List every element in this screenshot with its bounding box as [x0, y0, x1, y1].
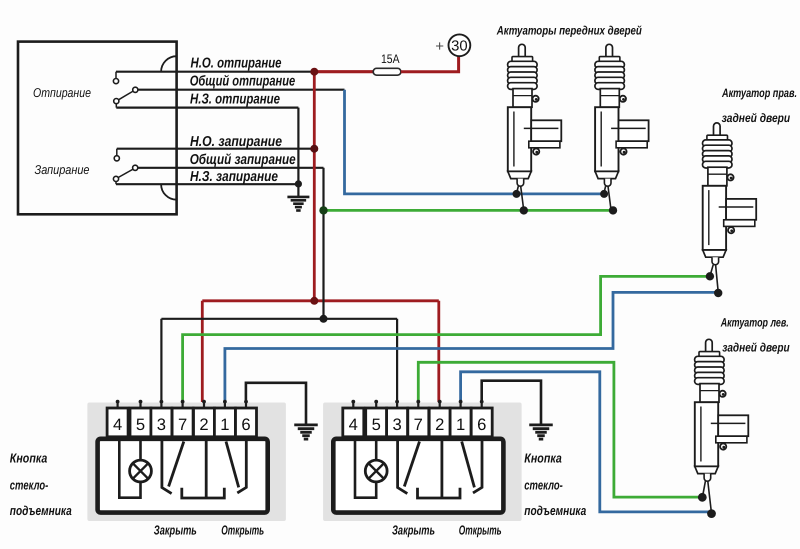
svg-text:Общий запирание: Общий запирание [190, 152, 296, 168]
svg-text:Открыть: Открыть [221, 523, 264, 538]
relay box (central locking control unit) [18, 42, 177, 215]
terminal box pin 4 [343, 408, 364, 437]
wire: +12V feed to fuse (dark red) [314, 70, 373, 73]
svg-text:Н.З. запирание: Н.З. запирание [190, 169, 278, 185]
junction: left-rear actuator blue lead [707, 509, 716, 518]
svg-text:Актуаторы передних дверей: Актуаторы передних дверей [496, 23, 642, 37]
svg-text:2: 2 [199, 415, 208, 434]
junction: left-rear actuator green lead [698, 493, 707, 502]
terminal box pin 2 [429, 408, 450, 437]
terminal box pin 4 [107, 408, 128, 437]
close contact (pins 3/7) in right [398, 440, 408, 494]
actuator front-left door [508, 44, 562, 186]
terminal box pin 3 [151, 408, 172, 437]
ground wire from left switch pin 6 [246, 383, 306, 424]
wire: common unlock to front actuators (blue) [345, 90, 605, 194]
window switch right terminal pins [351, 400, 483, 408]
svg-text:стекло-: стекло- [10, 478, 49, 493]
svg-text:5: 5 [372, 415, 381, 434]
junction: common lock green tap [319, 206, 327, 214]
svg-text:Н.О. запирание: Н.О. запирание [190, 134, 282, 150]
actuator right-rear door [703, 123, 757, 265]
relay arm (lock) [118, 169, 133, 177]
svg-text:Кнопка: Кнопка [10, 450, 48, 465]
junction: right-rear actuator blue lead [714, 289, 722, 297]
wire: Общий запирание (black) [138, 167, 324, 169]
common bar (pin 2) in left [182, 440, 225, 498]
window switch left terminal pins [116, 400, 248, 408]
relay contact circle - common lock [133, 165, 138, 170]
leads: left-rear actuator [703, 481, 706, 496]
junction: N.C. lock / ground wire [295, 180, 302, 187]
svg-text:4: 4 [349, 415, 358, 434]
terminal box pin 6 [236, 408, 257, 437]
wire: Общий отпирание (black) [138, 89, 345, 91]
wire riser N.C. unlock [115, 104, 117, 108]
lamp (illumination) in right [365, 460, 387, 482]
junction: front-left actuator lock lead [520, 206, 528, 214]
wire: left switch pin 1 to right-rear actuator (blue) [225, 292, 716, 402]
svg-text:подъемника: подъемника [524, 503, 586, 518]
leads: right-rear actuator [710, 265, 713, 276]
wire: +12V drop to right switch pin 2 (dark red) [437, 301, 440, 402]
wire: +12V drop to left switch pin 2 (dark red) [201, 301, 204, 402]
wire: N.C. wires to ground (black vertical) [297, 108, 299, 197]
junction: right-rear actuator green lead [706, 272, 714, 280]
junction: front-right actuator lock lead [609, 206, 617, 214]
ground wire from right switch pin 6 [482, 381, 541, 424]
terminal box pin 1 [450, 408, 471, 437]
common bar (pin 2) in right [418, 440, 461, 498]
svg-text:задней двери: задней двери [722, 340, 790, 354]
junction: N.O. lock / +12V [310, 145, 318, 153]
svg-text:6: 6 [477, 415, 486, 434]
junction: +12V branch [310, 297, 318, 305]
ground symbol (relay N.C.) [287, 196, 309, 199]
wire: fuse to +30 terminal (dark red) [401, 56, 459, 71]
wire riser N.O. unlock [115, 72, 117, 79]
relay contact circle - N.C. unlock [114, 99, 119, 104]
terminal box pin 7 [408, 408, 429, 437]
junction: front-right actuator unlock lead [600, 190, 608, 198]
terminal box pin 3 [387, 408, 408, 437]
svg-text:6: 6 [241, 415, 250, 434]
leads: front-left actuator [517, 186, 519, 193]
relay arm (unlock) [119, 91, 134, 100]
svg-text:Запирание: Запирание [35, 162, 90, 177]
svg-text:7: 7 [178, 415, 187, 434]
wire: Н.З. запирание (black) [116, 183, 298, 185]
wire: +12V branch to window switches (dark red horizontal) [202, 299, 438, 302]
box edge arc (bottom wire opening) [161, 184, 177, 200]
close contact (pins 3/7) in left [162, 440, 172, 494]
battery terminal 30 circle [449, 34, 471, 56]
svg-text:7: 7 [414, 415, 423, 434]
svg-text:Закрыть: Закрыть [154, 523, 197, 538]
open contact (pins 1/6) in right [462, 442, 475, 488]
ground symbol (right switch) [529, 423, 553, 426]
fuse F1 15A [373, 68, 401, 75]
svg-text:Кнопка: Кнопка [524, 450, 562, 465]
svg-text:30: 30 [451, 39, 468, 55]
wire: Н.О. отпирание (black) [116, 71, 314, 73]
wire: main +12V vertical (dark red) [313, 72, 316, 301]
svg-text:Отпирание: Отпирание [33, 85, 91, 100]
relay contact circle - common unlock [133, 87, 138, 92]
svg-text:Актуатор прав.: Актуатор прав. [721, 86, 797, 100]
svg-text:1: 1 [220, 415, 229, 434]
svg-text:Актуатор лев.: Актуатор лев. [720, 316, 789, 330]
svg-text:Общий отпирание: Общий отпирание [190, 73, 296, 89]
svg-text:4: 4 [113, 415, 122, 434]
lamp (illumination) in left [130, 460, 152, 482]
svg-text:задней двери: задней двери [722, 111, 791, 125]
terminal box pin 2 [194, 408, 215, 437]
window switch left body [98, 439, 268, 513]
wire: drop to left switch pin 3 (black) [160, 319, 162, 402]
svg-text:Н.З. отпирание: Н.З. отпирание [190, 91, 280, 107]
junction: front-left actuator unlock lead [513, 190, 521, 198]
wire: Н.З. отпирание (black) [116, 106, 298, 108]
svg-text:Закрыть: Закрыть [392, 523, 435, 538]
svg-text:15А: 15А [381, 52, 400, 66]
open contact (pins 1/6) in left [226, 442, 239, 488]
window switch left background [87, 403, 286, 522]
terminal box pin 6 [471, 408, 492, 437]
junction: N.O. unlock / +12V [310, 68, 318, 76]
box edge arc (top wire opening) [161, 56, 177, 71]
wire: right switch pin 1 to left-rear actuator (blue) [461, 372, 709, 512]
terminal box pin 5 [130, 408, 151, 437]
relay contact circle - N.O. lock [114, 156, 119, 161]
svg-text:5: 5 [136, 415, 145, 434]
wire: left switch pin 7 to right-rear actuator (green) [183, 276, 708, 402]
wire: Н.О. запирание (black) [117, 148, 314, 150]
terminal box pin 1 [214, 408, 235, 437]
window switch right body [333, 439, 503, 513]
leads: front-right actuator [604, 186, 606, 193]
lamp wiring in right [355, 440, 376, 498]
wire: common lock to front actuators (green) [324, 209, 614, 212]
svg-text:Н.О. отпирание: Н.О. отпирание [191, 55, 282, 71]
terminal box pin 5 [366, 408, 387, 437]
actuator front-right door [595, 44, 649, 186]
wire: right switch pin 7 to left-rear actuator (green) [418, 362, 700, 497]
relay contact circle - N.O. unlock [113, 79, 118, 84]
wire: pin 3 bus (black horizontal) [161, 318, 397, 320]
junction: common lock / pin 3 bus [320, 315, 328, 323]
wire riser N.O. lock [116, 149, 118, 156]
svg-text:1: 1 [456, 415, 465, 434]
relay contact circle - N.C. lock [113, 176, 118, 181]
svg-text:стекло-: стекло- [524, 478, 563, 493]
svg-text:3: 3 [157, 415, 166, 434]
terminal box pin 7 [172, 408, 193, 437]
ground symbol (left switch) [294, 423, 318, 426]
window switch right background [323, 403, 521, 522]
svg-text:+: + [435, 38, 444, 55]
svg-text:3: 3 [392, 415, 401, 434]
wire: common lock drop (black vertical) [322, 168, 324, 319]
svg-text:Открыть: Открыть [459, 523, 502, 538]
wire riser N.C. lock [115, 182, 117, 185]
lamp wiring in left [119, 440, 140, 498]
wire: drop to right switch pin 3 (black) [396, 319, 398, 402]
svg-text:2: 2 [435, 415, 444, 434]
actuator left-rear door [695, 339, 749, 481]
svg-text:подъемника: подъемника [10, 503, 72, 518]
